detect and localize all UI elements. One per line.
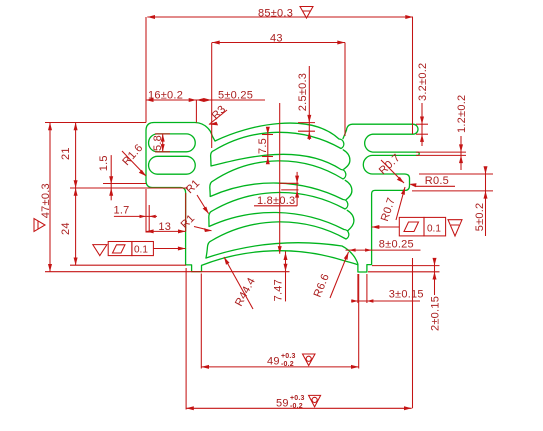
svg-text:21: 21 xyxy=(60,147,72,160)
right trunk + comb + right foot xyxy=(343,124,419,272)
svg-text:+0.3: +0.3 xyxy=(281,353,296,360)
svg-text:2.5±0.3: 2.5±0.3 xyxy=(297,73,309,111)
svg-text:0.1: 0.1 xyxy=(134,244,148,255)
svg-text:R0.5: R0.5 xyxy=(425,175,449,187)
ext line y188 xyxy=(70,187,188,189)
svg-text:1.7: 1.7 xyxy=(114,204,130,216)
slot lower in left block xyxy=(149,156,196,174)
ext line x345 xyxy=(344,43,346,137)
ext line y271.7 long xyxy=(45,271,290,273)
svg-text:1.5: 1.5 xyxy=(98,155,110,171)
svg-text:24: 24 xyxy=(60,222,72,235)
svg-text:0.1: 0.1 xyxy=(427,224,441,235)
svg-text:2±0.15: 2±0.15 xyxy=(430,296,442,331)
svg-text:59: 59 xyxy=(276,397,289,409)
svg-text:49: 49 xyxy=(267,356,280,368)
ext line x212 valley xyxy=(211,43,213,149)
trunk bay between fin1 and fin2 tips xyxy=(343,150,350,169)
fin 5 top + R6.6 fillet xyxy=(206,243,358,265)
trunk bay between fin2 and fin3 tips xyxy=(345,180,352,200)
svg-text:3.2±0.2: 3.2±0.2 xyxy=(417,63,429,101)
svg-text:85±0.3: 85±0.3 xyxy=(258,8,293,20)
svg-text:1.2±0.2: 1.2±0.2 xyxy=(456,95,468,133)
right datum frame xyxy=(399,217,424,236)
svg-text:1.8±0.3: 1.8±0.3 xyxy=(257,195,295,207)
long center vertical xyxy=(279,103,281,254)
left datum frame xyxy=(93,245,107,256)
surface symbol 47 xyxy=(34,219,45,232)
ext line y265.2 xyxy=(70,264,186,266)
ext line right 85/59 long xyxy=(412,17,414,134)
svg-text:3±0.15: 3±0.15 xyxy=(389,289,424,301)
slot 5.8 upper in left block xyxy=(149,134,196,152)
ext line top y122.5 xyxy=(45,122,146,124)
svg-text:5±0.2: 5±0.2 xyxy=(474,203,486,232)
svg-text:8±0.25: 8±0.25 xyxy=(379,238,414,250)
ext line left 85/16 xyxy=(145,17,147,123)
svg-text:+0.3: +0.3 xyxy=(290,395,305,402)
svg-text:7.5: 7.5 xyxy=(257,138,269,154)
profile: left block + trunk + feet + base valley xyxy=(146,123,358,272)
svg-text:7.47: 7.47 xyxy=(272,279,284,301)
curved fins 1-4 xyxy=(206,123,349,258)
surface symbol top xyxy=(300,7,313,19)
dim line 85 xyxy=(147,16,413,18)
trunk bay between fin3 and fin4 tips xyxy=(347,210,354,230)
svg-text:-0.2: -0.2 xyxy=(290,403,303,410)
